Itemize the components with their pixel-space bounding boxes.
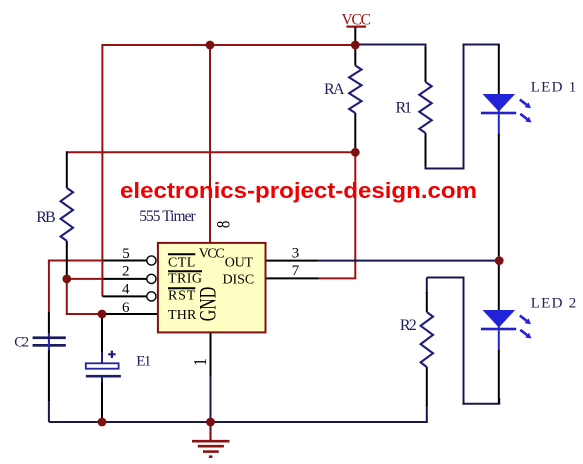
resistor RA (349, 45, 361, 152)
resistor RB (61, 151, 73, 279)
resistor R2 (421, 292, 433, 406)
svg-text:R1: R1 (396, 99, 413, 116)
svg-text:3: 3 (292, 245, 300, 261)
resistor R1 (419, 47, 431, 166)
svg-text:555 Timer: 555 Timer (139, 208, 196, 225)
wire: R1 bottom horizontal (425, 168, 465, 170)
svg-text:5: 5 (122, 246, 130, 262)
pin 2 TRIG lead (104, 278, 147, 280)
wire: LED2 cathode corner (498, 398, 500, 404)
wire: top to LED1 anode (463, 44, 500, 46)
svg-text:E1: E1 (136, 353, 151, 369)
svg-text:DISC: DISC (223, 273, 255, 288)
svg-text:GND: GND (196, 287, 221, 322)
node LED mid junction (495, 256, 504, 265)
svg-text:RST: RST (168, 289, 196, 304)
wire: VCC-to-RST left vertical (101, 44, 103, 296)
chip pin circle pin4 (147, 292, 156, 301)
wire: RA-bottom down to DISC (354, 152, 356, 278)
node ground junction (206, 418, 215, 427)
node RB TRIG junction (62, 275, 71, 284)
wire: bottom ground rail (49, 421, 427, 423)
pin 1 GND lead (210, 332, 212, 376)
wire: LED2 bottom horizontal (463, 403, 501, 405)
svg-text:TRIG: TRIG (168, 272, 202, 287)
svg-text:CTL: CTL (168, 256, 195, 271)
wire: R1 bottom corner (425, 163, 427, 169)
svg-text:4: 4 (122, 282, 130, 298)
LED D1 (481, 45, 532, 257)
wire: R2 bottom corner (426, 405, 428, 423)
wire: pin 8 vertical (VCC to chip) (209, 44, 211, 243)
svg-text:1: 1 (190, 358, 210, 366)
pin 3 OUT lead (266, 260, 319, 262)
svg-text:2: 2 (122, 263, 130, 279)
VCC power symbol (342, 11, 372, 42)
svg-text:8: 8 (213, 221, 234, 228)
wire: DISC pin7 red segment (319, 277, 357, 279)
wire: TRIG-to-THR horizontal (66, 313, 102, 315)
LED2 arrow 1 (520, 316, 527, 321)
wire: R1 top corner down (425, 45, 427, 51)
svg-text:electronics-project-design.com: electronics-project-design.com (120, 178, 477, 203)
node VCC junction (351, 41, 360, 50)
node THR junction (98, 310, 107, 319)
chip pin circle pin2 (147, 274, 156, 283)
node RA bottom junction (351, 148, 360, 157)
wire: TRIG down vertical (66, 279, 68, 315)
wire: OUT pin3 navy segment (319, 260, 500, 262)
E1 plus sign (108, 353, 115, 355)
svg-text:RB: RB (36, 209, 56, 226)
pin 5 CTL lead (104, 260, 147, 262)
svg-text:LED 1: LED 1 (531, 80, 577, 96)
capacitor C2 (33, 312, 66, 401)
wire: CTL pin5 red segment (48, 260, 105, 262)
wire: TRIG pin2 red segment (67, 278, 105, 280)
pin 6 THR lead (102, 313, 158, 315)
pin 4 RST lead (102, 295, 146, 297)
svg-text:OUT: OUT (225, 256, 254, 271)
node pin8 top junction (206, 41, 215, 50)
LED D2 (481, 261, 532, 404)
wire: R2 top corner down (426, 278, 428, 294)
svg-text:VCC: VCC (199, 247, 225, 262)
wire: CTL down to C2 (48, 261, 50, 314)
chip pin circle pin5 (147, 256, 156, 265)
node E1 bottom junction (98, 418, 107, 427)
svg-text:LED 2: LED 2 (531, 295, 577, 311)
wire: pin1 lower navy segment (210, 375, 212, 422)
svg-text:R2: R2 (400, 317, 417, 334)
svg-text:THR: THR (168, 308, 197, 323)
capacitor E1 (86, 314, 121, 422)
LED1 arrow 2 (520, 114, 527, 119)
wire: riser up to LED1 (463, 45, 465, 170)
op-amp/timer chip U1 555 (158, 243, 266, 333)
svg-text:7: 7 (292, 263, 300, 279)
ground (192, 422, 230, 457)
svg-text:C2: C2 (14, 335, 29, 351)
wire: VCC junction to R1 top (355, 44, 426, 46)
pin 7 DISC lead (266, 277, 319, 279)
wire: C2 bottom corner (48, 400, 50, 422)
svg-text:6: 6 (122, 300, 130, 316)
wire: RB-top to RA-bottom horizontal (67, 151, 356, 153)
wire: R2 top horizontal (427, 277, 465, 279)
wire: VCC top horizontal rail (101, 44, 356, 46)
svg-text:RA: RA (324, 81, 345, 98)
LED1 arrow 1 (520, 100, 527, 105)
wire: riser LED2 loop (463, 277, 465, 405)
LED2 arrow 2 (520, 330, 527, 335)
